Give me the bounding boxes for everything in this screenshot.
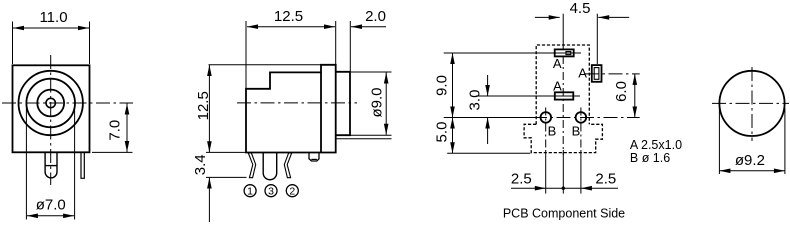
svg-text:4.5: 4.5: [570, 0, 591, 17]
svg-text:2.5: 2.5: [595, 170, 616, 187]
dim 11.0 line: [13, 27, 89, 29]
extension line body bottom: [206, 151, 246, 153]
centerline slot top / ext 9.0: [444, 52, 581, 54]
pin number 2: [286, 185, 298, 197]
dim ø9.0 line: [385, 73, 387, 135]
svg-text:9.0: 9.0: [434, 75, 451, 96]
rear circle V centerline: [751, 67, 753, 141]
outer circle (flange ø9.2): [19, 71, 83, 135]
dim 4.5 ext right: [596, 14, 598, 64]
svg-text:2: 2: [289, 186, 295, 198]
dim 11.0 extension lines: [12, 22, 14, 65]
slot A top: pin inside: [566, 52, 571, 55]
horizontal centerline view1: [2, 102, 133, 104]
svg-text:B: B: [572, 124, 581, 139]
svg-text:2.5: 2.5: [511, 170, 532, 187]
svg-text:PCB Component Side: PCB Component Side: [503, 207, 625, 221]
circle ø7 bushing: [26, 79, 75, 128]
svg-text:ø9.0: ø9.0: [369, 87, 386, 117]
centerline slot middle / ext 3.0: [476, 95, 580, 97]
slot A top: outer: [555, 49, 574, 56]
dashed outline flange steps: [524, 124, 602, 152]
dim 2.0 extension line: [349, 21, 351, 71]
svg-text:A 2.5x1.0: A 2.5x1.0: [630, 138, 682, 152]
dim ø9.0 extension lines: [350, 71, 392, 73]
pin 3 side (center U): [263, 153, 277, 180]
svg-text:A: A: [578, 66, 587, 81]
svg-text:3.4: 3.4: [192, 154, 209, 175]
svg-text:A: A: [553, 56, 562, 71]
svg-text:ø7.0: ø7.0: [36, 196, 66, 213]
pin number 1: [244, 185, 256, 197]
centerline holes B / ext 9.0 bottom: [444, 117, 533, 119]
dim 4.5 arrows: [535, 16, 560, 18]
svg-text:3: 3: [268, 186, 274, 198]
dim 7.0 extension line bottom: [92, 151, 133, 153]
front view body outline: [13, 65, 90, 152]
svg-text:ø9.2: ø9.2: [735, 152, 765, 169]
vertical centerline hole B right: [580, 108, 582, 151]
dim 2.5 line: [511, 187, 618, 189]
dim 12.5 extension lines: [245, 21, 247, 88]
side terminal tab: [309, 153, 319, 161]
dashed outline top rect: [536, 45, 589, 124]
vertical centerline view1: [50, 55, 52, 185]
hole B left: [541, 112, 552, 123]
pin number 3: [265, 185, 277, 197]
centerline view2: [237, 102, 357, 104]
svg-text:B ø 1.6: B ø 1.6: [630, 151, 670, 165]
svg-text:B: B: [548, 124, 557, 139]
dim ø9.2 extension lines: [718, 108, 720, 174]
svg-text:2.0: 2.0: [365, 8, 386, 25]
flange lower ledge line: [336, 138, 392, 140]
svg-text:12.5: 12.5: [274, 8, 303, 25]
pin 2 side (bent): [284, 153, 291, 178]
slot A right: pin inside: [594, 68, 599, 80]
dim 12.5 left line: [208, 65, 210, 152]
svg-text:7.0: 7.0: [107, 120, 124, 141]
dim 12.5 top line: [247, 26, 335, 28]
dim 3.4 arrow: [208, 178, 210, 223]
rear circle: [719, 71, 784, 136]
dim 2.0 arrow and line: [351, 26, 386, 28]
circle barrel opening: [37, 90, 64, 117]
pin 1 side (bent): [248, 153, 255, 178]
side view body outline: [246, 65, 336, 153]
pin front (center pin): [45, 153, 57, 178]
pin front (side terminal): [81, 153, 84, 178]
face plate interior line: [320, 72, 322, 152]
vertical centerline main (4.5 ext): [562, 14, 564, 50]
svg-text:3.0: 3.0: [467, 90, 484, 111]
slot A middle: [555, 92, 574, 99]
svg-text:A: A: [553, 79, 562, 94]
top extension line / top edge: [209, 64, 336, 66]
extension line 5.0 bottom: [447, 152, 530, 154]
vertical centerline hole B left: [545, 108, 547, 151]
center pin circle: [46, 98, 55, 107]
svg-text:5.0: 5.0: [434, 122, 451, 143]
rear circle H centerline: [712, 102, 789, 104]
dim ø9.2 line: [719, 170, 785, 172]
extension line pin bottom: [206, 176, 247, 178]
svg-text:6.0: 6.0: [613, 81, 630, 102]
svg-text:11.0: 11.0: [39, 9, 67, 26]
flange (barrel bushing): [336, 72, 350, 135]
slot A right (vertical): outer: [592, 65, 602, 82]
dim 2.5 center dot: [562, 187, 565, 190]
svg-text:1: 1: [247, 186, 253, 198]
centerline slot right / ext 6.0: [585, 73, 640, 75]
hole B right: [576, 112, 587, 123]
